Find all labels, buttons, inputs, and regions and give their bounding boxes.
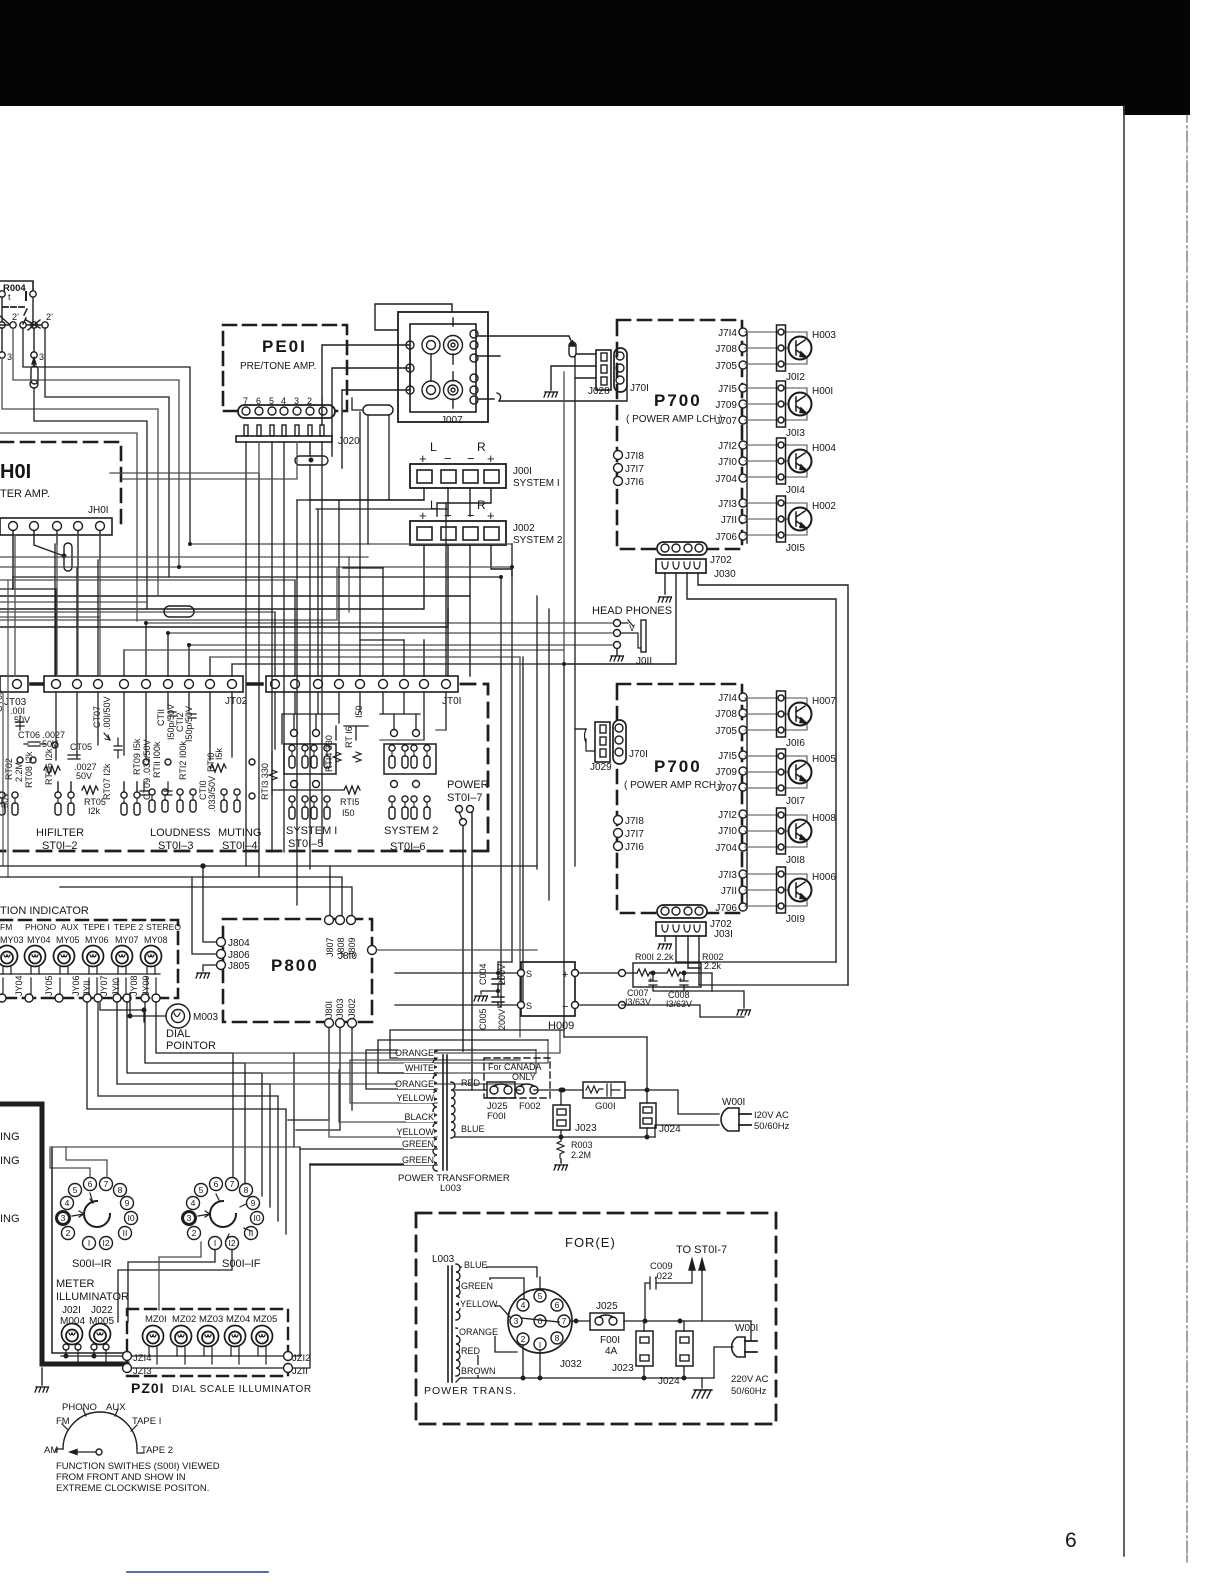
- svg-text:R00I 2.2k: R00I 2.2k: [635, 952, 674, 962]
- bottom rail 120V: [455, 1136, 655, 1138]
- meter illuminator frame: [52, 1147, 123, 1353]
- svg-text:J70I: J70I: [629, 749, 648, 760]
- hifilter components: [0, 690, 112, 816]
- svg-text:3: 3: [187, 1213, 192, 1223]
- transistor H004 + J014: [745, 438, 812, 484]
- lamp leads: [3, 967, 155, 974]
- svg-text:L: L: [430, 498, 437, 512]
- svg-text:JZI4: JZI4: [133, 1353, 151, 1364]
- svg-text:II: II: [249, 1228, 254, 1238]
- svg-text:J70I: J70I: [630, 383, 649, 394]
- svg-text:II: II: [123, 1228, 128, 1238]
- svg-text:I3/63V: I3/63V: [666, 999, 692, 1009]
- svg-text:R: R: [477, 498, 486, 512]
- svg-text:J7I2: J7I2: [718, 441, 737, 452]
- svg-text:+: +: [678, 975, 683, 985]
- svg-text:J805: J805: [228, 961, 250, 972]
- capacitor C004: [474, 963, 507, 1030]
- core: [443, 1055, 447, 1170]
- svg-text:POINTOR: POINTOR: [166, 1040, 216, 1052]
- svg-text:L: L: [430, 440, 437, 454]
- svg-text:TEPE 2: TEPE 2: [114, 922, 144, 932]
- svg-text:FOR(E): FOR(E): [565, 1235, 616, 1250]
- resistor R001: [626, 972, 637, 974]
- connector oval under switch: [30, 358, 38, 388]
- svg-text:4: 4: [191, 1198, 196, 1208]
- thick ground bus: [42, 1104, 127, 1364]
- svg-text:RTII I00k: RTII I00k: [152, 741, 162, 778]
- connector strip JT03: [0, 676, 42, 708]
- pin circles RCH: [739, 693, 747, 911]
- svg-text:TEPE I: TEPE I: [83, 922, 110, 932]
- hifilter small parts: [16, 716, 122, 794]
- svg-text:50V: 50V: [14, 715, 30, 725]
- pin bus RCH: [746, 697, 748, 908]
- power switch ST01-7: [447, 779, 489, 1090]
- svg-text:I2k: I2k: [88, 806, 101, 816]
- svg-text:J7I4: J7I4: [718, 693, 737, 704]
- connector pins 7-1: [238, 396, 335, 418]
- wires from J007 to J028: [453, 336, 627, 408]
- rotor S001-1F: [210, 1201, 236, 1227]
- svg-text:220V AC: 220V AC: [731, 1374, 769, 1385]
- svg-text:SYSTEM I: SYSTEM I: [286, 825, 337, 837]
- svg-text:J802: J802: [347, 998, 357, 1018]
- svg-text:METER: METER: [56, 1278, 95, 1290]
- svg-text:I0: I0: [127, 1213, 134, 1223]
- svg-text:JYI0: JYI0: [111, 978, 121, 996]
- svg-text:J7I6: J7I6: [625, 477, 644, 488]
- svg-text:H003: H003: [812, 330, 836, 341]
- rectifier H009: [395, 962, 626, 1032]
- svg-text:ST0I–2: ST0I–2: [42, 840, 77, 852]
- svg-text:J023: J023: [575, 1123, 597, 1134]
- rotor S001-1R: [84, 1201, 110, 1227]
- svg-text:FROM FRONT AND SHOW IN: FROM FRONT AND SHOW IN: [56, 1472, 186, 1483]
- svg-text:8: 8: [555, 1333, 560, 1343]
- svg-text:CT07: CT07: [92, 706, 102, 728]
- svg-text:ORANGE: ORANGE: [395, 1079, 434, 1089]
- svg-text:J03I: J03I: [714, 929, 733, 940]
- arc tick marks: [56, 1409, 144, 1453]
- svg-text:F00I: F00I: [600, 1335, 620, 1346]
- center trunk verticals: [501, 544, 564, 1037]
- svg-text:BLUE: BLUE: [464, 1260, 488, 1270]
- connector J028: [588, 350, 611, 397]
- PZ01 dashed box: [127, 1309, 288, 1376]
- svg-text:J7I5: J7I5: [718, 384, 737, 395]
- svg-text:ILLUMINATOR: ILLUMINATOR: [56, 1291, 129, 1303]
- top pins J807 J808 J809: [325, 916, 334, 925]
- svg-text:M003: M003: [193, 1012, 218, 1023]
- svg-text:POWER TRANS.: POWER TRANS.: [424, 1385, 517, 1397]
- terminal J002 SYSTEM 2: [410, 498, 563, 546]
- svg-text:J709: J709: [715, 400, 737, 411]
- connector strip JT02: [44, 676, 262, 707]
- svg-text:CTII: CTII: [156, 709, 166, 726]
- svg-text:JY04: JY04: [14, 975, 24, 996]
- svg-text:H005: H005: [812, 754, 836, 765]
- svg-text:MY06: MY06: [85, 935, 109, 945]
- svg-text:RT I6: RT I6: [344, 726, 354, 748]
- svg-text:W00I: W00I: [735, 1323, 758, 1334]
- svg-text:PHONO: PHONO: [25, 922, 57, 932]
- svg-text:SYSTEM 2: SYSTEM 2: [513, 535, 563, 546]
- svg-text:J704: J704: [715, 843, 737, 854]
- svg-text:J807: J807: [325, 937, 335, 957]
- svg-text:2’: 2’: [12, 312, 19, 322]
- svg-text:8: 8: [118, 1185, 123, 1195]
- svg-text:3: 3: [39, 352, 44, 362]
- svg-text:3: 3: [61, 1213, 66, 1223]
- svg-text:GREEN: GREEN: [402, 1139, 434, 1149]
- svg-text:BLACK: BLACK: [404, 1112, 434, 1122]
- svg-text:5: 5: [73, 1185, 78, 1195]
- svg-text:PRE/TONE AMP.: PRE/TONE AMP.: [240, 361, 316, 372]
- svg-text:V: V: [629, 623, 635, 633]
- svg-text:J706: J706: [715, 903, 737, 914]
- svg-text:LOUDNESS: LOUDNESS: [150, 827, 211, 839]
- svg-text:RT07 I2k: RT07 I2k: [102, 763, 112, 800]
- svg-text:( POWER AMP RCH ): ( POWER AMP RCH ): [624, 780, 722, 791]
- svg-text:J00I: J00I: [513, 466, 532, 477]
- svg-text:PE0I: PE0I: [262, 337, 307, 356]
- oval jumper near J007: [352, 398, 393, 544]
- module PE01: [223, 325, 347, 411]
- svg-text:P700: P700: [654, 391, 702, 410]
- svg-text:YELLOW: YELLOW: [396, 1127, 434, 1137]
- svg-text:.00I/50V: .00I/50V: [102, 696, 112, 730]
- transistor H003 + J012: [745, 325, 812, 371]
- svg-text:7: 7: [230, 1179, 235, 1189]
- svg-text:PZ0I: PZ0I: [131, 1380, 165, 1396]
- svg-text:J7I0: J7I0: [718, 826, 737, 837]
- connector circles bottom: [0, 994, 160, 1002]
- resistor RT10 15k: [210, 764, 226, 772]
- svg-text:I50: I50: [342, 808, 355, 818]
- svg-text:For CANADA: For CANADA: [488, 1062, 542, 1072]
- svg-text:4: 4: [65, 1198, 70, 1208]
- svg-text:J707: J707: [715, 416, 737, 427]
- svg-text:J7I0: J7I0: [718, 457, 737, 468]
- svg-text:J028: J028: [588, 386, 610, 397]
- left coil: [433, 1051, 437, 1171]
- svg-text:200V: 200V: [497, 1009, 507, 1030]
- svg-text:J7I7: J7I7: [625, 464, 644, 475]
- svg-text:JY09: JY09: [141, 975, 151, 996]
- transistor H001 + J013: [745, 381, 812, 427]
- svg-text:JY05: JY05: [44, 975, 54, 996]
- socket pins J032: [534, 1290, 546, 1302]
- socket wiring: [460, 1267, 540, 1290]
- module P700 RCH: [614, 684, 743, 913]
- svg-text:.033/50V: .033/50V: [207, 776, 217, 812]
- svg-text:GREEN: GREEN: [461, 1281, 493, 1291]
- J031 wires to rectifier block: [676, 961, 836, 963]
- wires to plug W001 (220V): [714, 1321, 751, 1378]
- svg-text:W00I: W00I: [722, 1097, 745, 1108]
- svg-text:I: I: [214, 1238, 216, 1248]
- lamps MZ01-MZ05: [143, 1326, 164, 1347]
- svg-text:JZI2: JZI2: [292, 1353, 310, 1364]
- JZ bus lines: [61, 1352, 310, 1378]
- svg-text:9: 9: [251, 1198, 256, 1208]
- svg-text:J0I6: J0I6: [786, 738, 805, 749]
- svg-text:MZ03: MZ03: [199, 1314, 223, 1325]
- AC plug W001 (120V): [655, 1090, 790, 1137]
- R003: [554, 1135, 593, 1170]
- connector strip JH01: [0, 518, 112, 535]
- svg-text:( POWER AMP LCH ): ( POWER AMP LCH ): [626, 414, 723, 425]
- wires from JH01 strip down: [13, 531, 100, 589]
- svg-text:AUX: AUX: [61, 922, 79, 932]
- FOR(E) dashed box: [416, 1213, 776, 1424]
- svg-text:HEAD PHONES: HEAD PHONES: [592, 605, 672, 617]
- wire to plug W001: [655, 1090, 719, 1137]
- switch contacts 2' 2'': [0, 297, 53, 362]
- svg-text:6: 6: [555, 1300, 560, 1310]
- svg-text:J708: J708: [715, 709, 737, 720]
- J024 (220V): [676, 1331, 693, 1366]
- svg-text:H004: H004: [812, 443, 836, 454]
- connector J020: [236, 425, 360, 447]
- svg-text:J025: J025: [596, 1301, 618, 1312]
- muting switch ST01-4: [218, 759, 261, 852]
- jumper oval under J020: [295, 442, 328, 465]
- top black bar: [0, 0, 1123, 106]
- svg-text:F00I: F00I: [487, 1111, 506, 1122]
- svg-text:WHITE: WHITE: [405, 1063, 434, 1073]
- svg-text:+: +: [562, 969, 568, 981]
- J024 (120V): [564, 1037, 681, 1139]
- wires under J031: [664, 936, 666, 941]
- svg-text:RT02: RT02: [4, 758, 14, 780]
- transistor H006 + J019: [745, 867, 812, 913]
- svg-text:J7I6: J7I6: [625, 842, 644, 853]
- svg-text:DIAL: DIAL: [166, 1028, 190, 1040]
- svg-text:ST0I–7: ST0I–7: [447, 792, 482, 804]
- module JH01 box: [0, 442, 121, 527]
- wires JT02 to bundle: [15, 535, 564, 676]
- svg-text:YELLOW: YELLOW: [396, 1093, 434, 1103]
- svg-text:J705: J705: [715, 726, 737, 737]
- connector strip JT01: [266, 676, 461, 707]
- svg-text:G00I: G00I: [595, 1101, 616, 1112]
- transistor H002 + J015: [745, 496, 812, 542]
- svg-text:ST0I–4: ST0I–4: [222, 840, 257, 852]
- svg-text:I: I: [539, 1340, 541, 1350]
- svg-text:J704: J704: [715, 474, 737, 485]
- right page edge broken line: [1186, 115, 1188, 1564]
- svg-text:TAPE 2: TAPE 2: [141, 1445, 173, 1456]
- module P700 LCH: [614, 320, 743, 549]
- svg-text:ING: ING: [0, 1213, 20, 1225]
- left edge verticals: [3, 580, 8, 877]
- svg-text:MZ0I: MZ0I: [145, 1314, 167, 1325]
- transistor H007 + J016: [745, 691, 812, 737]
- svg-text:8: 8: [244, 1185, 249, 1195]
- svg-text:MZ05: MZ05: [253, 1314, 277, 1325]
- svg-text:7: 7: [562, 1316, 567, 1326]
- pin labels RCH: [715, 693, 737, 914]
- svg-text:6: 6: [1065, 1529, 1077, 1552]
- svg-text:ST0I–5: ST0I–5: [288, 838, 323, 850]
- svg-text:ST0I–6: ST0I–6: [390, 841, 425, 853]
- svg-text:HIFILTER: HIFILTER: [36, 827, 84, 839]
- system resistors: [260, 705, 364, 818]
- svg-text:R004: R004: [3, 283, 26, 294]
- svg-text:ORANGE: ORANGE: [459, 1327, 498, 1337]
- svg-text:J806: J806: [228, 950, 250, 961]
- resistor R004: [0, 281, 36, 324]
- svg-text:6: 6: [88, 1179, 93, 1189]
- svg-text:JT0I: JT0I: [442, 696, 461, 707]
- fuse F002: [516, 1084, 538, 1094]
- strip stubs down to switch components: [56, 692, 446, 760]
- svg-text:PHONO: PHONO: [62, 1402, 97, 1413]
- wires from J001/J002 down: [310, 488, 491, 516]
- rotary S001-1R: [57, 1178, 138, 1271]
- svg-text:I0: I0: [253, 1213, 260, 1223]
- svg-text:0: 0: [538, 1316, 543, 1326]
- svg-text:MZ04: MZ04: [226, 1314, 250, 1325]
- svg-text:.022: .022: [654, 1271, 673, 1282]
- svg-text:MY07: MY07: [115, 935, 139, 945]
- wires rotary to right maze: [233, 1030, 560, 1147]
- svg-text:J0I2: J0I2: [786, 372, 805, 383]
- svg-text:BLUE: BLUE: [461, 1124, 485, 1134]
- svg-text:I50: I50: [354, 705, 364, 718]
- connector J701 (LCH): [614, 348, 649, 394]
- svg-text:7: 7: [104, 1179, 109, 1189]
- transistor H008 + J018: [745, 808, 812, 854]
- svg-text:MY04: MY04: [27, 935, 51, 945]
- svg-text:J7I8: J7I8: [625, 451, 644, 462]
- svg-text:I20V AC: I20V AC: [754, 1110, 789, 1121]
- capacitors C004 C005: [492, 973, 504, 1005]
- svg-text:J029: J029: [590, 762, 612, 773]
- svg-text:2’: 2’: [46, 312, 53, 322]
- svg-text:J702: J702: [710, 555, 732, 566]
- hi filter switch ST01-2: [0, 782, 140, 852]
- svg-text:H00I: H00I: [812, 386, 833, 397]
- svg-text:J0I5: J0I5: [786, 543, 805, 554]
- svg-text:J030: J030: [714, 569, 736, 580]
- G001 filter: [583, 1082, 678, 1112]
- transformer right wires + fuse J025/F001: [455, 1058, 583, 1122]
- transformer wire labels: [458, 1259, 496, 1375]
- wires above indicator: [0, 866, 537, 942]
- svg-text:FUNCTION SWITHES (S00I) VIEWED: FUNCTION SWITHES (S00I) VIEWED: [56, 1461, 220, 1472]
- lamp M003 dial pointer: [100, 993, 218, 1052]
- svg-text:ONLY: ONLY: [512, 1072, 536, 1082]
- svg-text:TO ST0I-7: TO ST0I-7: [676, 1244, 727, 1256]
- bottom blue rule: [127, 1571, 268, 1573]
- connector J702 RCH: [657, 905, 732, 930]
- loudness switch ST01-3: [149, 789, 211, 852]
- svg-text:J0I7: J0I7: [786, 796, 805, 807]
- svg-text:2: 2: [66, 1228, 71, 1238]
- svg-text:J7I3: J7I3: [718, 499, 737, 510]
- connector J030: [656, 559, 736, 580]
- rotary S001-1F: [183, 1178, 264, 1271]
- svg-text:J708: J708: [715, 344, 737, 355]
- J023 (120V): [553, 1088, 597, 1137]
- svg-text:4A: 4A: [605, 1346, 618, 1357]
- svg-text:DIAL SCALE ILLUMINATOR: DIAL SCALE ILLUMINATOR: [172, 1384, 312, 1395]
- svg-text:J007: J007: [441, 415, 463, 426]
- svg-text:CT05: CT05: [70, 742, 92, 752]
- svg-text:J0II: J0II: [636, 656, 652, 667]
- transformer L003 (220V): [448, 1266, 452, 1382]
- svg-text:J705: J705: [715, 361, 737, 372]
- svg-text:YELLOW: YELLOW: [460, 1299, 498, 1309]
- function indicator box: [0, 905, 181, 1002]
- svg-text:RTI5: RTI5: [340, 797, 359, 807]
- TO ST01-7 arrows: [692, 1268, 702, 1321]
- svg-text:RED: RED: [461, 1078, 481, 1088]
- svg-text:J02I: J02I: [62, 1305, 81, 1316]
- svg-text:J7II: J7II: [721, 886, 737, 897]
- J020 pin drops: [110, 442, 448, 905]
- svg-text:GREEN: GREEN: [402, 1155, 434, 1165]
- transformer left wires: [300, 1030, 564, 1165]
- svg-text:J8I0: J8I0: [338, 951, 357, 962]
- svg-text:JZI3: JZI3: [133, 1366, 151, 1377]
- svg-text:M004: M004: [60, 1316, 85, 1327]
- svg-text:AUX: AUX: [106, 1402, 126, 1413]
- svg-text:ST0I–3: ST0I–3: [158, 840, 193, 852]
- svg-text:JT02: JT02: [225, 696, 248, 707]
- J023 (220V): [636, 1331, 653, 1366]
- junction dots: [144, 542, 566, 993]
- bottom pins J801 J803 J802: [325, 1019, 334, 1028]
- svg-text:SYSTEM I: SYSTEM I: [513, 478, 560, 489]
- R001 R002 C007 C008 block: [622, 952, 751, 1017]
- wires JT01 to maze: [0, 412, 446, 676]
- svg-text:MY03: MY03: [0, 935, 24, 945]
- svg-text:50V: 50V: [76, 771, 92, 781]
- terminal J001 SYSTEM 1: [410, 440, 560, 489]
- svg-text:J0I4: J0I4: [786, 485, 805, 496]
- svg-text:MZ02: MZ02: [172, 1314, 196, 1325]
- svg-text:L003: L003: [440, 1183, 461, 1194]
- svg-text:5: 5: [538, 1291, 543, 1301]
- svg-text:MY05: MY05: [56, 935, 80, 945]
- svg-text:J7I8: J7I8: [625, 816, 644, 827]
- svg-text:L003: L003: [432, 1254, 455, 1265]
- jumper oval mid bundle: [164, 606, 194, 617]
- right page fold line: [1123, 106, 1125, 1556]
- svg-text:4: 4: [521, 1300, 526, 1310]
- svg-text:J0I9: J0I9: [786, 914, 805, 925]
- svg-text:I2: I2: [228, 1238, 235, 1248]
- svg-text:J709: J709: [715, 767, 737, 778]
- svg-text:H002: H002: [812, 501, 836, 512]
- svg-text:EXTREME CLOCKWISE POSITON.: EXTREME CLOCKWISE POSITON.: [56, 1483, 209, 1494]
- right pin J810: [368, 946, 377, 955]
- svg-text:J0I8: J0I8: [786, 855, 805, 866]
- svg-text:RT09 I5k: RT09 I5k: [132, 738, 142, 775]
- lamps MY03-MY08: [0, 946, 18, 967]
- svg-text:H0I: H0I: [0, 461, 31, 483]
- svg-text:3: 3: [7, 352, 12, 362]
- svg-text:50/60Hz: 50/60Hz: [731, 1386, 767, 1397]
- trunk turns to power area: [498, 962, 512, 1007]
- svg-text:J7I2: J7I2: [718, 810, 737, 821]
- svg-text:J706: J706: [715, 532, 737, 543]
- P800 bottom pin wires: [288, 1027, 329, 1120]
